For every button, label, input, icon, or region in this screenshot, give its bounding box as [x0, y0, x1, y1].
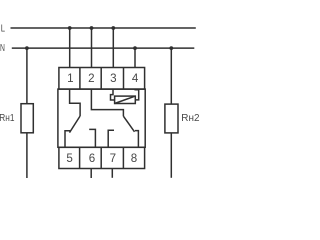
terminal divider 1|2	[79, 68, 81, 90]
resistor Rh2 body	[165, 104, 178, 133]
terminal divider 3|4	[123, 68, 125, 90]
contact arm 2	[123, 116, 134, 132]
pin label 8	[131, 152, 137, 165]
coil K1 body	[115, 96, 136, 103]
label Rh2	[181, 112, 199, 124]
wire N to resistor Rh1	[26, 48, 28, 104]
pin label 5	[66, 152, 72, 165]
label Rh1	[0, 112, 15, 124]
svg-text:8: 8	[131, 152, 137, 165]
svg-text:N: N	[0, 42, 5, 54]
svg-text:2: 2	[88, 72, 94, 85]
terminal divider 2|3	[100, 68, 102, 90]
terminal divider 7|8	[122, 147, 124, 168]
wire N to resistor Rh2	[170, 48, 172, 104]
wire Rh2 bottom lead	[170, 133, 172, 178]
coil K1 diagonal	[115, 96, 136, 103]
pin label 2	[88, 72, 94, 85]
pin label 4	[132, 72, 139, 85]
svg-text:3: 3	[110, 72, 116, 85]
wire L to terminal 1	[69, 28, 71, 68]
pin label 1	[67, 72, 73, 85]
wire L to terminal 2	[91, 28, 93, 68]
svg-text:Rн1: Rн1	[0, 112, 15, 124]
wire L line	[11, 27, 196, 29]
wire terminal 3 to coil left lead	[111, 89, 115, 100]
fixed contact 8	[135, 131, 139, 148]
svg-text:4: 4	[132, 72, 139, 85]
wire terminal 4 to coil right lead	[135, 89, 139, 100]
svg-text:7: 7	[110, 152, 116, 165]
junction dot N to Rh2	[169, 46, 173, 50]
pin label 6	[89, 152, 95, 165]
fixed contact 6	[89, 129, 95, 147]
pin label 3	[110, 72, 116, 85]
svg-text:1: 1	[67, 72, 73, 85]
svg-text:5: 5	[66, 152, 72, 165]
svg-text:Rн2: Rн2	[181, 112, 199, 124]
wire L to terminal 3	[112, 28, 114, 68]
terminal row top outline	[59, 68, 145, 90]
svg-text:L: L	[1, 23, 5, 35]
relay box outline	[58, 89, 145, 147]
node L label	[1, 23, 5, 35]
junction dot L to terminal 2	[90, 26, 94, 30]
wire terminal 7 stub	[111, 169, 113, 178]
terminal divider 5|6	[79, 147, 81, 168]
terminal divider 6|7	[100, 147, 102, 168]
contact arm 1	[70, 116, 81, 133]
junction dot L to terminal 1	[68, 26, 72, 30]
resistor Rh1 body	[21, 104, 33, 133]
junction dot N to Rh1	[25, 46, 29, 50]
wire terminal 2 feed to contact arm 2 pivot	[91, 89, 123, 116]
junction dot N to terminal 4	[133, 46, 137, 50]
wire N line	[12, 47, 195, 49]
svg-text:6: 6	[89, 152, 95, 165]
wire Rh1 bottom lead	[26, 133, 28, 178]
terminal row bottom outline	[59, 147, 145, 168]
fixed contact 5	[65, 131, 70, 148]
wire terminal 6 stub	[90, 169, 92, 179]
wire N to terminal 4	[134, 48, 136, 67]
wire terminal 1 feed to contact arm 1 pivot	[70, 89, 81, 116]
node N label	[0, 42, 5, 54]
junction dot L to terminal 3	[111, 26, 115, 30]
fixed contact 7	[108, 130, 114, 147]
pin label 7	[110, 152, 116, 165]
